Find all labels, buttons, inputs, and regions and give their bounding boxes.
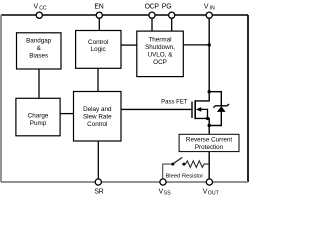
zener diode anode triangle — [217, 106, 226, 112]
pass FET Q1 body arrow — [196, 107, 202, 112]
svg-text:OUT: OUT — [208, 191, 220, 197]
block Bandgap & Biases — [17, 33, 62, 69]
svg-text:Slew Rate: Slew Rate — [83, 114, 112, 121]
wire Charge Pump to Delay block — [60, 113, 73, 115]
svg-text:CC: CC — [39, 6, 47, 12]
junction Thermal/VIN — [208, 43, 211, 46]
svg-text:Control: Control — [87, 121, 107, 128]
wire output net to VOUT pin — [208, 126, 210, 183]
bleed resistor zigzag — [184, 161, 209, 168]
pin PG — [169, 12, 175, 18]
svg-text:Delay and: Delay and — [83, 106, 112, 113]
svg-text:Charge: Charge — [28, 112, 49, 119]
svg-text:SR: SR — [94, 188, 103, 195]
svg-text:Control: Control — [88, 39, 108, 46]
junction body-source — [206, 117, 209, 120]
svg-text:Protection: Protection — [195, 144, 224, 151]
wire FET source to output net — [195, 118, 209, 125]
block Delay and Slew Rate Control — [74, 92, 122, 142]
zener diode body: cathode bar — [213, 104, 229, 108]
svg-text:Biases: Biases — [29, 53, 48, 60]
block Reverse Current Protection — [179, 134, 239, 151]
svg-text:Pump: Pump — [30, 120, 47, 127]
block Control Logic — [76, 31, 121, 69]
IC boundary bottom edge — [1, 181, 248, 183]
pin VOUT — [206, 179, 212, 185]
IC boundary right edge — [247, 15, 249, 182]
wire OCP to Thermal block — [151, 15, 153, 31]
pin OCP — [149, 12, 155, 18]
svg-text:EN: EN — [94, 4, 103, 11]
svg-text:SS: SS — [164, 191, 171, 197]
wire FET body to source — [201, 109, 208, 118]
svg-text:Reverse Current: Reverse Current — [186, 136, 232, 143]
IC boundary top edge — [1, 14, 248, 16]
wire Thermal block to VIN net — [183, 44, 209, 46]
wire VSS to bleed switch — [163, 164, 173, 182]
svg-text:Thermal: Thermal — [148, 36, 171, 43]
svg-text:V: V — [204, 4, 209, 11]
junction zener bottom on output net — [208, 124, 211, 127]
bleed switch lever — [174, 157, 183, 163]
pass FET Q1 channel bar — [194, 100, 196, 119]
block Thermal Shutdown, UVLO, & OCP — [137, 31, 184, 77]
svg-text:PG: PG — [162, 4, 172, 11]
IC boundary left edge — [0, 15, 2, 182]
pass FET Q1 gate bar — [191, 102, 193, 119]
wire Control Logic to Delay block — [97, 68, 99, 91]
svg-text:Shutdown,: Shutdown, — [145, 44, 175, 51]
pin SR — [95, 179, 101, 185]
svg-text:IN: IN — [210, 6, 215, 12]
svg-text:OCP: OCP — [145, 4, 160, 11]
svg-text:Bandgap: Bandgap — [26, 37, 52, 44]
wire PG to Thermal block — [171, 15, 173, 31]
wire VIN net to zener cathode — [209, 92, 221, 106]
junction zener top on VIN net — [208, 90, 211, 93]
pin VSS — [160, 179, 166, 185]
wire zener anode to output net — [209, 112, 221, 126]
svg-text:OCP: OCP — [153, 59, 167, 66]
svg-text:UVLO, &: UVLO, & — [148, 52, 174, 59]
switch contact left — [171, 163, 174, 166]
wire Delay block to SR pin — [97, 141, 99, 182]
block Charge Pump — [16, 98, 60, 136]
svg-text:Bleed Resistor: Bleed Resistor — [165, 174, 203, 180]
pin VCC — [36, 12, 42, 18]
svg-text:Pass FET: Pass FET — [161, 99, 188, 105]
pin EN — [96, 12, 102, 18]
wire Bandgap to Charge Pump — [38, 69, 40, 98]
wire EN to Control Logic — [98, 15, 100, 31]
pin VIN — [206, 12, 212, 18]
svg-text:Logic: Logic — [91, 46, 106, 53]
wire VIN to FET drain — [195, 15, 209, 101]
svg-text:V: V — [34, 4, 39, 11]
wire Delay block to gate of pass FET — [121, 108, 192, 110]
wire Control Logic to Thermal block — [121, 44, 137, 46]
switch contact right — [182, 163, 185, 166]
